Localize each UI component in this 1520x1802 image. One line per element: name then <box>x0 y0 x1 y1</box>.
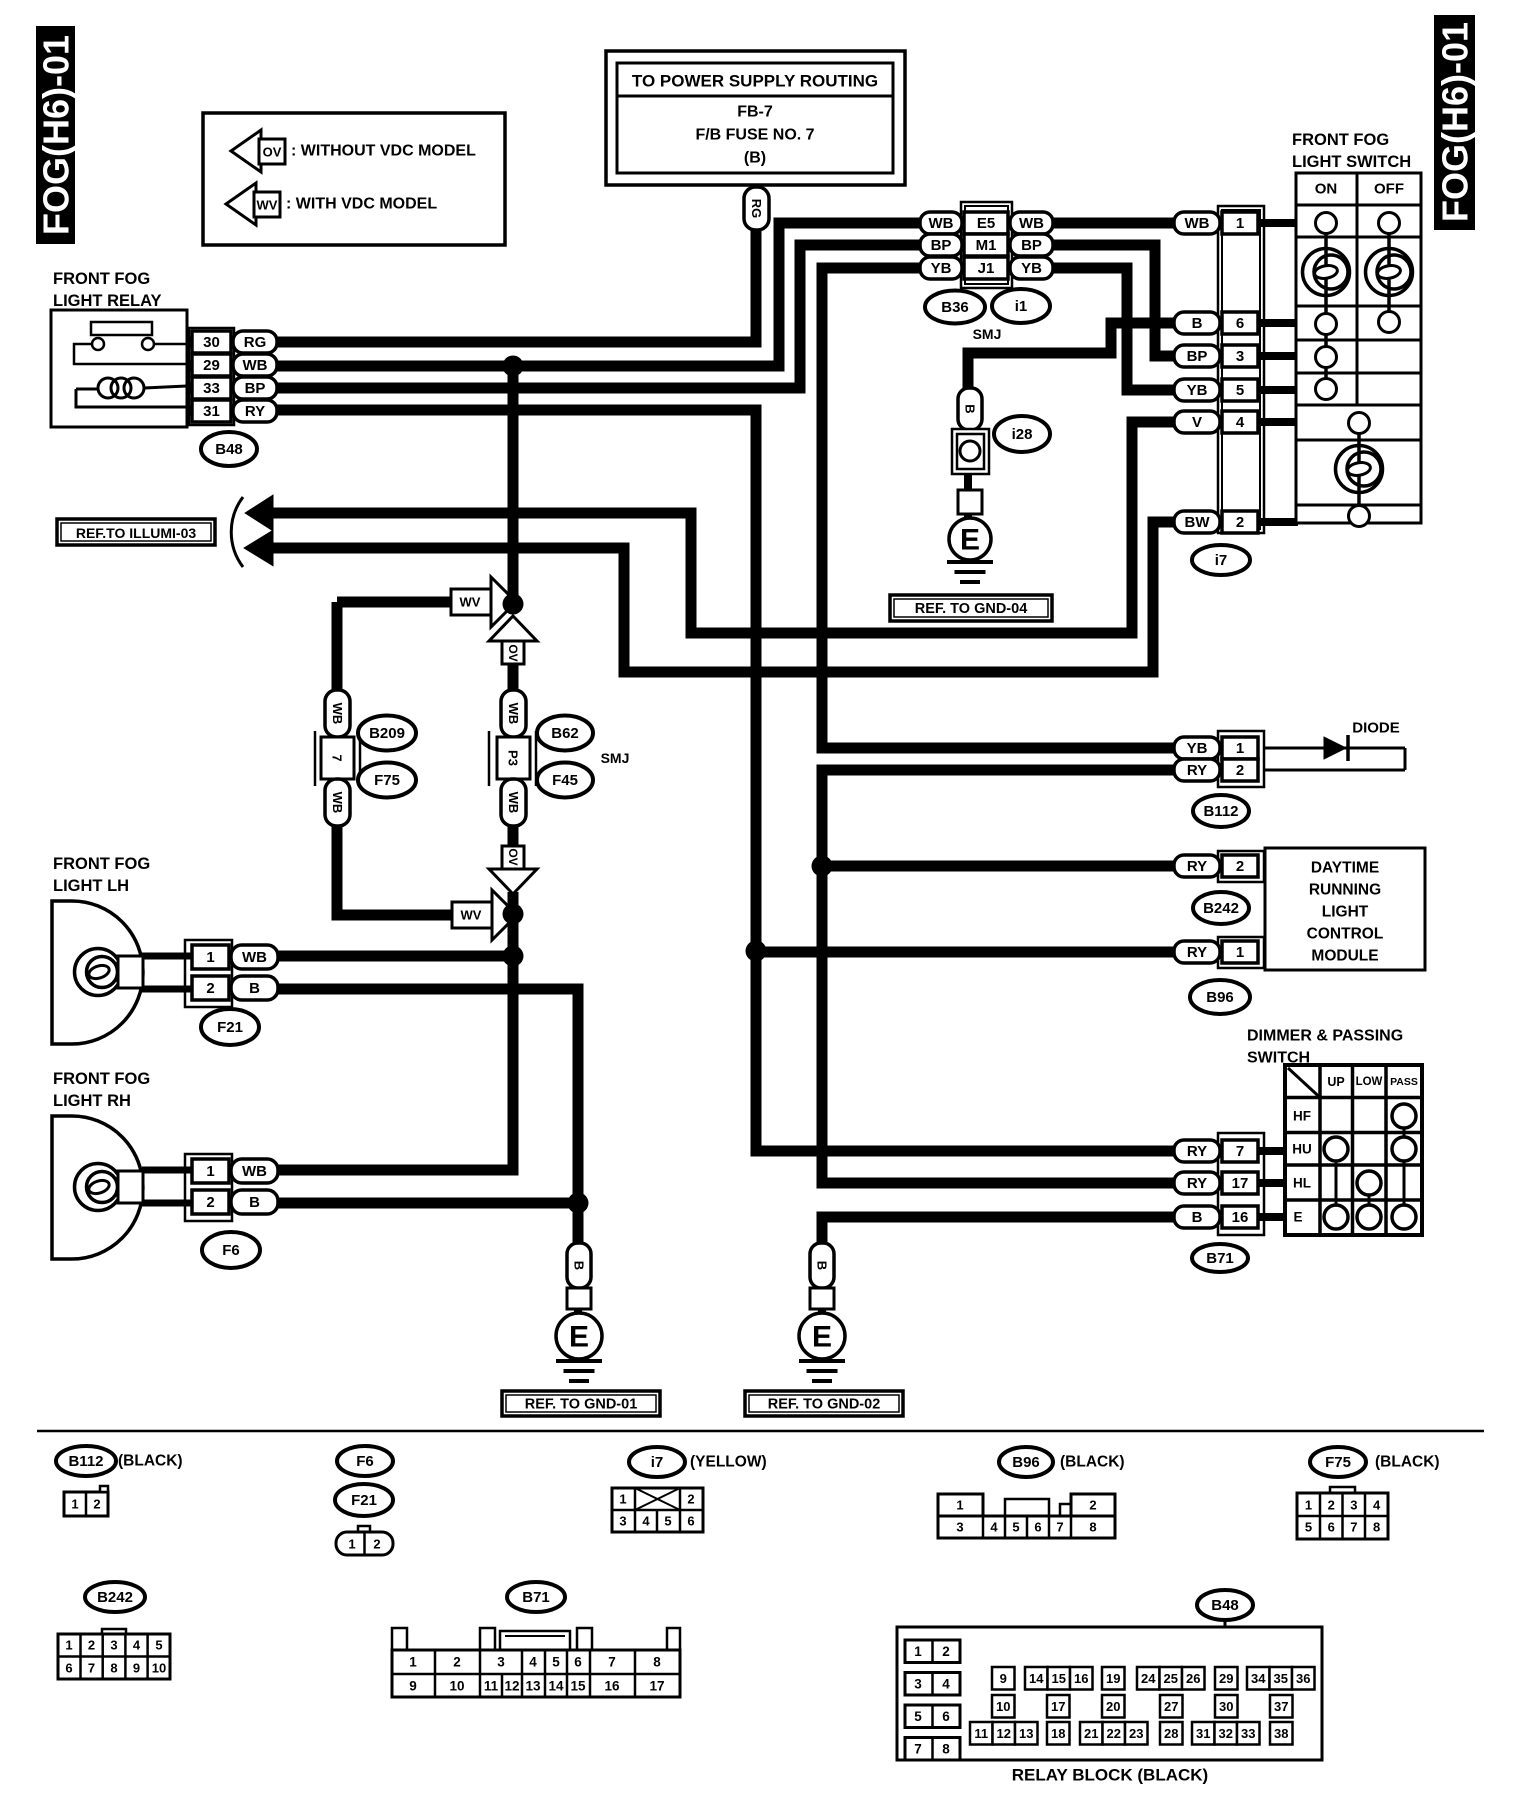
svg-text:3: 3 <box>619 1514 626 1529</box>
svg-text:WB: WB <box>243 357 268 374</box>
svg-text:7: 7 <box>330 754 345 761</box>
svg-text:DIMMER & PASSING: DIMMER & PASSING <box>1247 1028 1403 1045</box>
svg-text:B: B <box>1192 315 1203 332</box>
svg-text:7: 7 <box>88 1661 95 1676</box>
svg-text:OV: OV <box>263 145 282 160</box>
svg-text:10: 10 <box>449 1679 464 1694</box>
svg-text:4: 4 <box>133 1638 141 1653</box>
svg-text:B: B <box>572 1261 587 1270</box>
svg-text:2: 2 <box>206 980 214 997</box>
svg-text:WV: WV <box>461 908 482 923</box>
svg-text:B: B <box>249 1194 260 1211</box>
svg-text:E: E <box>960 524 980 557</box>
svg-text:B242: B242 <box>97 1589 133 1606</box>
svg-text:4: 4 <box>529 1655 537 1670</box>
svg-text:WB: WB <box>929 215 954 232</box>
svg-text:3: 3 <box>497 1655 505 1670</box>
svg-text:RY: RY <box>1187 1143 1207 1160</box>
svg-text:17: 17 <box>1232 1175 1249 1192</box>
svg-text:RUNNING: RUNNING <box>1309 882 1381 899</box>
svg-text:B62: B62 <box>551 725 579 742</box>
svg-text:PASS: PASS <box>1390 1076 1418 1088</box>
svg-text:36: 36 <box>1296 1671 1310 1686</box>
svg-text:i7: i7 <box>1215 552 1228 569</box>
svg-text:10: 10 <box>996 1699 1010 1714</box>
svg-text:FB-7: FB-7 <box>737 104 773 121</box>
svg-text:11: 11 <box>484 1679 499 1694</box>
svg-text:(YELLOW): (YELLOW) <box>690 1454 767 1471</box>
svg-text:1: 1 <box>65 1638 72 1653</box>
svg-text:26: 26 <box>1186 1671 1200 1686</box>
svg-text:15: 15 <box>1052 1671 1066 1686</box>
svg-text:BW: BW <box>1185 514 1211 531</box>
svg-text:B48: B48 <box>1211 1597 1239 1614</box>
svg-text:B: B <box>963 404 978 413</box>
svg-text:BP: BP <box>1187 348 1208 365</box>
svg-text:B112: B112 <box>68 1453 103 1470</box>
svg-text:: WITH VDC MODEL: : WITH VDC MODEL <box>286 196 437 213</box>
svg-text:DAYTIME: DAYTIME <box>1311 860 1379 877</box>
svg-text:33: 33 <box>1241 1726 1255 1741</box>
svg-text:6: 6 <box>574 1655 582 1670</box>
svg-text:YB: YB <box>931 260 952 277</box>
svg-text:RELAY BLOCK (BLACK): RELAY BLOCK (BLACK) <box>1012 1766 1208 1785</box>
svg-text:B209: B209 <box>369 725 405 742</box>
svg-text:MODULE: MODULE <box>1311 948 1378 965</box>
svg-text:12: 12 <box>997 1726 1011 1741</box>
svg-text:32: 32 <box>1219 1726 1233 1741</box>
svg-text:16: 16 <box>604 1679 620 1694</box>
svg-text:B: B <box>249 980 260 997</box>
svg-text:34: 34 <box>1251 1671 1266 1686</box>
svg-text:REF.TO ILLUMI-03: REF.TO ILLUMI-03 <box>76 525 197 541</box>
svg-text:8: 8 <box>653 1655 661 1670</box>
svg-text:FOG(H6)-01: FOG(H6)-01 <box>1435 22 1476 222</box>
svg-text:3: 3 <box>956 1520 963 1535</box>
svg-text:FOG(H6)-01: FOG(H6)-01 <box>36 35 77 235</box>
svg-text:14: 14 <box>1029 1671 1044 1686</box>
svg-text:1: 1 <box>956 1498 963 1513</box>
svg-text:LIGHT RH: LIGHT RH <box>53 1092 131 1110</box>
svg-text:F6: F6 <box>222 1242 240 1259</box>
svg-text:12: 12 <box>504 1679 519 1694</box>
svg-text:1: 1 <box>619 1492 626 1507</box>
svg-text:B71: B71 <box>1206 1250 1234 1267</box>
svg-text:5: 5 <box>914 1709 922 1724</box>
svg-text:RY: RY <box>1187 1175 1207 1192</box>
svg-text:UP: UP <box>1327 1075 1344 1089</box>
svg-text:F45: F45 <box>552 772 578 789</box>
svg-text:B: B <box>1192 1209 1203 1226</box>
svg-text:TO POWER SUPPLY ROUTING: TO POWER SUPPLY ROUTING <box>632 72 878 91</box>
svg-text:OV: OV <box>506 848 520 865</box>
svg-text:8: 8 <box>1089 1520 1096 1535</box>
svg-text:RY: RY <box>1187 858 1207 875</box>
svg-text:HU: HU <box>1292 1142 1312 1157</box>
svg-text:3: 3 <box>1350 1498 1357 1513</box>
svg-text:RY: RY <box>245 403 265 420</box>
svg-text:OV: OV <box>506 644 520 661</box>
svg-text:2: 2 <box>88 1638 95 1653</box>
svg-text:2: 2 <box>373 1537 380 1552</box>
svg-text:LIGHT LH: LIGHT LH <box>53 877 129 895</box>
svg-text:7: 7 <box>914 1742 922 1757</box>
svg-text:6: 6 <box>1034 1520 1041 1535</box>
svg-text:WB: WB <box>330 792 345 814</box>
svg-text:18: 18 <box>1051 1726 1065 1741</box>
svg-text:5: 5 <box>1012 1520 1019 1535</box>
svg-text:B36: B36 <box>941 299 969 316</box>
svg-text:RG: RG <box>244 334 267 351</box>
svg-text:20: 20 <box>1106 1699 1120 1714</box>
svg-text:: WITHOUT VDC MODEL: : WITHOUT VDC MODEL <box>291 143 476 160</box>
svg-text:LIGHT: LIGHT <box>1322 904 1369 921</box>
svg-text:HF: HF <box>1293 1109 1311 1124</box>
svg-text:CONTROL: CONTROL <box>1307 926 1384 943</box>
svg-text:35: 35 <box>1274 1671 1288 1686</box>
svg-text:4: 4 <box>942 1677 950 1692</box>
svg-text:5: 5 <box>155 1638 162 1653</box>
svg-text:24: 24 <box>1141 1671 1156 1686</box>
svg-text:11: 11 <box>974 1726 988 1741</box>
svg-text:E: E <box>1293 1210 1302 1225</box>
svg-text:(BLACK): (BLACK) <box>118 1453 183 1470</box>
svg-text:FRONT FOG: FRONT FOG <box>53 270 150 288</box>
svg-text:4: 4 <box>642 1514 650 1529</box>
svg-text:REF. TO GND-04: REF. TO GND-04 <box>915 601 1028 617</box>
svg-text:13: 13 <box>525 1679 541 1694</box>
svg-text:6: 6 <box>687 1514 694 1529</box>
svg-text:3: 3 <box>914 1677 922 1692</box>
svg-text:FRONT FOG: FRONT FOG <box>53 855 150 873</box>
svg-text:1: 1 <box>1236 215 1244 232</box>
svg-text:RY: RY <box>1187 944 1207 961</box>
svg-text:38: 38 <box>1274 1726 1288 1741</box>
svg-text:LIGHT RELAY: LIGHT RELAY <box>53 292 161 310</box>
svg-text:30: 30 <box>1219 1699 1233 1714</box>
svg-text:FRONT FOG: FRONT FOG <box>53 1070 150 1088</box>
svg-text:REF. TO GND-02: REF. TO GND-02 <box>768 1397 881 1413</box>
svg-text:OFF: OFF <box>1374 181 1404 198</box>
svg-text:1: 1 <box>206 949 214 966</box>
svg-text:BP: BP <box>245 380 266 397</box>
svg-text:16: 16 <box>1232 1209 1249 1226</box>
svg-text:(B): (B) <box>744 150 766 167</box>
svg-text:6: 6 <box>942 1709 950 1724</box>
svg-text:2: 2 <box>206 1194 214 1211</box>
svg-text:30: 30 <box>203 334 220 351</box>
svg-text:17: 17 <box>649 1679 664 1694</box>
svg-text:2: 2 <box>687 1492 694 1507</box>
svg-text:LOW: LOW <box>1356 1076 1383 1088</box>
svg-text:2: 2 <box>942 1644 950 1659</box>
svg-text:3: 3 <box>1236 348 1244 365</box>
svg-text:E: E <box>812 1321 832 1354</box>
svg-text:2: 2 <box>1236 514 1244 531</box>
svg-text:ON: ON <box>1315 181 1338 198</box>
svg-text:WB: WB <box>242 949 267 966</box>
svg-text:B112: B112 <box>1203 803 1238 820</box>
svg-text:2: 2 <box>453 1655 461 1670</box>
svg-text:9: 9 <box>1000 1671 1007 1686</box>
svg-text:E: E <box>569 1321 589 1354</box>
svg-text:6: 6 <box>65 1661 72 1676</box>
svg-text:2: 2 <box>1328 1498 1335 1513</box>
svg-text:1: 1 <box>1236 944 1244 961</box>
svg-text:21: 21 <box>1084 1726 1098 1741</box>
svg-text:7: 7 <box>1236 1143 1244 1160</box>
svg-text:27: 27 <box>1164 1699 1178 1714</box>
svg-text:17: 17 <box>1051 1699 1065 1714</box>
svg-text:WB: WB <box>242 1163 267 1180</box>
svg-text:5: 5 <box>1236 382 1244 399</box>
svg-text:B48: B48 <box>215 441 243 458</box>
svg-text:4: 4 <box>990 1520 998 1535</box>
svg-text:DIODE: DIODE <box>1352 720 1400 737</box>
svg-text:F/B FUSE NO. 7: F/B FUSE NO. 7 <box>695 127 814 144</box>
svg-text:WB: WB <box>506 792 521 814</box>
svg-text:14: 14 <box>548 1679 564 1694</box>
svg-text:J1: J1 <box>978 260 995 277</box>
svg-text:16: 16 <box>1074 1671 1088 1686</box>
svg-text:1: 1 <box>348 1537 355 1552</box>
svg-text:(BLACK): (BLACK) <box>1060 1454 1125 1471</box>
svg-text:i7: i7 <box>651 1454 664 1471</box>
svg-text:22: 22 <box>1107 1726 1121 1741</box>
svg-text:HL: HL <box>1293 1176 1311 1191</box>
svg-text:23: 23 <box>1129 1726 1143 1741</box>
svg-text:WV: WV <box>460 595 481 610</box>
svg-text:8: 8 <box>1373 1520 1380 1535</box>
svg-text:1: 1 <box>206 1163 214 1180</box>
svg-text:RY: RY <box>1187 762 1207 779</box>
svg-text:2: 2 <box>1236 762 1244 779</box>
svg-text:B96: B96 <box>1012 1454 1040 1471</box>
svg-text:13: 13 <box>1019 1726 1033 1741</box>
svg-text:2: 2 <box>1236 858 1244 875</box>
svg-text:37: 37 <box>1274 1699 1288 1714</box>
svg-text:1: 1 <box>1305 1498 1312 1513</box>
svg-text:BP: BP <box>931 237 952 254</box>
svg-text:(BLACK): (BLACK) <box>1375 1454 1440 1471</box>
svg-text:15: 15 <box>570 1679 586 1694</box>
svg-text:10: 10 <box>152 1661 166 1676</box>
svg-text:29: 29 <box>1219 1671 1233 1686</box>
svg-text:B: B <box>815 1261 830 1270</box>
svg-text:28: 28 <box>1164 1726 1178 1741</box>
svg-text:RG: RG <box>749 199 764 219</box>
svg-text:F21: F21 <box>351 1492 377 1509</box>
svg-text:M1: M1 <box>976 237 997 254</box>
svg-text:WB: WB <box>506 703 521 725</box>
svg-text:25: 25 <box>1164 1671 1178 1686</box>
svg-text:F21: F21 <box>217 1019 243 1036</box>
svg-text:9: 9 <box>133 1661 140 1676</box>
svg-text:4: 4 <box>1373 1498 1381 1513</box>
svg-text:5: 5 <box>552 1655 560 1670</box>
svg-text:5: 5 <box>664 1514 671 1529</box>
svg-text:19: 19 <box>1106 1671 1120 1686</box>
svg-text:31: 31 <box>203 403 220 420</box>
svg-text:E5: E5 <box>977 215 995 232</box>
svg-text:B242: B242 <box>1203 900 1239 917</box>
svg-text:F75: F75 <box>1325 1454 1351 1471</box>
svg-text:SMJ: SMJ <box>973 326 1002 342</box>
svg-text:SMJ: SMJ <box>601 750 630 766</box>
svg-text:P3: P3 <box>506 750 521 766</box>
svg-text:i28: i28 <box>1012 426 1033 443</box>
svg-text:8: 8 <box>942 1742 950 1757</box>
svg-text:8: 8 <box>110 1661 117 1676</box>
svg-text:B96: B96 <box>1206 989 1234 1006</box>
svg-text:4: 4 <box>1236 414 1245 431</box>
svg-text:7: 7 <box>608 1655 616 1670</box>
svg-text:1: 1 <box>71 1497 78 1512</box>
svg-text:5: 5 <box>1305 1520 1312 1535</box>
svg-text:6: 6 <box>1328 1520 1335 1535</box>
svg-text:2: 2 <box>93 1497 100 1512</box>
svg-text:1: 1 <box>409 1655 417 1670</box>
svg-text:33: 33 <box>203 380 220 397</box>
svg-text:29: 29 <box>203 357 220 374</box>
svg-text:9: 9 <box>409 1679 417 1694</box>
svg-text:REF. TO GND-01: REF. TO GND-01 <box>525 1397 638 1413</box>
svg-text:6: 6 <box>1236 315 1244 332</box>
svg-text:B71: B71 <box>522 1589 550 1606</box>
svg-text:YB: YB <box>1021 260 1042 277</box>
svg-text:YB: YB <box>1187 382 1208 399</box>
svg-text:V: V <box>1192 414 1202 431</box>
svg-text:i1: i1 <box>1015 298 1028 315</box>
svg-text:F75: F75 <box>374 772 400 789</box>
svg-text:1: 1 <box>1236 740 1244 757</box>
svg-text:2: 2 <box>1089 1498 1096 1513</box>
svg-text:3: 3 <box>110 1638 117 1653</box>
svg-text:LIGHT SWITCH: LIGHT SWITCH <box>1292 153 1411 171</box>
svg-text:1: 1 <box>914 1644 922 1659</box>
svg-text:7: 7 <box>1056 1520 1063 1535</box>
svg-text:7: 7 <box>1350 1520 1357 1535</box>
svg-text:WV: WV <box>257 198 278 213</box>
svg-text:YB: YB <box>1187 740 1208 757</box>
svg-text:FRONT FOG: FRONT FOG <box>1292 131 1389 149</box>
svg-text:WB: WB <box>330 703 345 725</box>
svg-text:BP: BP <box>1021 237 1042 254</box>
svg-text:31: 31 <box>1196 1726 1210 1741</box>
svg-text:WB: WB <box>1019 215 1044 232</box>
svg-text:F6: F6 <box>356 1453 374 1470</box>
svg-text:WB: WB <box>1185 215 1210 232</box>
